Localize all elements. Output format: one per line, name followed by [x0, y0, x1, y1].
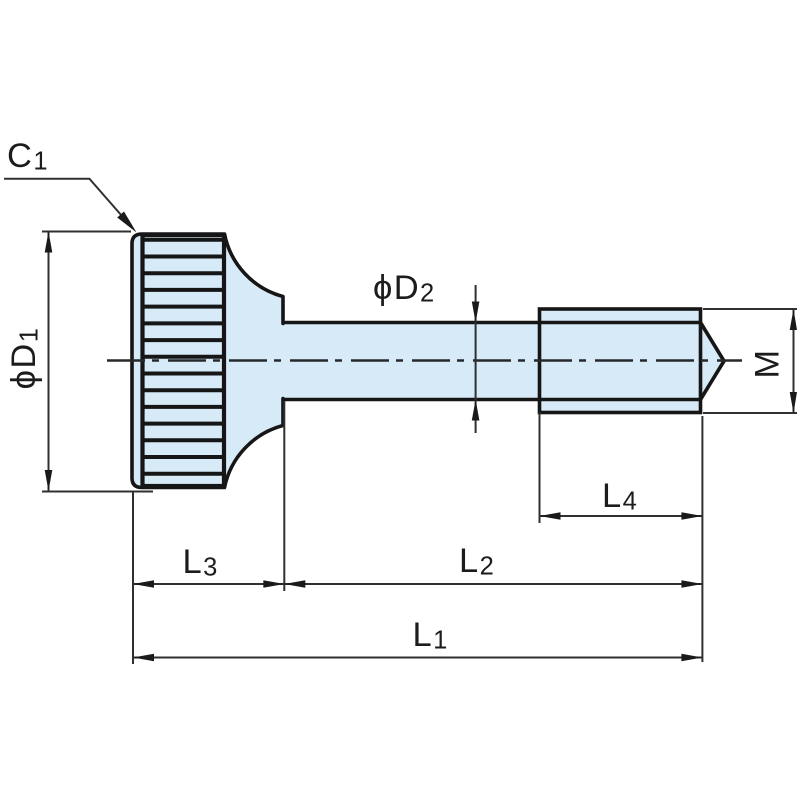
- thread outline: [540, 309, 701, 413]
- svg-text:L4: L4: [602, 477, 638, 516]
- L1 dimension line: [133, 657, 702, 659]
- phiD2 dimension line: [475, 285, 477, 433]
- L4 extension lines: [539, 413, 541, 524]
- thread fill: [540, 309, 725, 413]
- L4 arrows: [540, 512, 561, 520]
- M dimension line: [793, 310, 795, 413]
- svg-text:L1: L1: [413, 616, 449, 655]
- L3 / L2 dimension line: [133, 583, 702, 585]
- head outline: [132, 234, 283, 488]
- centerline: [107, 359, 742, 362]
- arrowheads: [45, 212, 797, 662]
- svg-text:ϕD1: ϕD1: [5, 327, 44, 390]
- L3 extension lines: [132, 492, 134, 664]
- M extension lines: [703, 308, 797, 310]
- C1 leader arrow: [117, 212, 136, 233]
- L4 dimension line: [540, 515, 703, 517]
- shaft outline / thread minor diameter lines: [284, 321, 701, 325]
- L3 arrows: [133, 580, 154, 588]
- phiD1 dimension line: [48, 232, 50, 491]
- phiD1 extension lines: [42, 231, 131, 233]
- head fill: [132, 234, 283, 488]
- dimension and extension lines: [4, 179, 797, 664]
- phiD1 arrows: [45, 232, 53, 253]
- leader line for C1: [4, 179, 122, 216]
- knurl lines: [143, 240, 225, 474]
- svg-text:L2: L2: [459, 542, 495, 581]
- L2 arrows: [284, 580, 305, 588]
- L1 arrows: [133, 654, 154, 662]
- phiD2 arrows: [472, 302, 480, 323]
- thread tip chamfer: [701, 323, 725, 400]
- svg-text:C1: C1: [7, 137, 49, 176]
- svg-text:L3: L3: [183, 543, 219, 582]
- M arrows: [790, 309, 797, 330]
- svg-text:M: M: [749, 348, 787, 378]
- shaft fill: [283, 323, 540, 400]
- knurl face border: [143, 235, 225, 486]
- svg-text:ϕD2: ϕD2: [373, 269, 436, 308]
